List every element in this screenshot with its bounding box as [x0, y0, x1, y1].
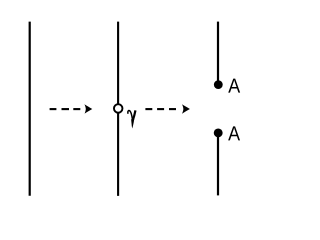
label A (bottom)	[228, 126, 240, 140]
wavefront line 2 (middle vertical line)	[117, 22, 119, 196]
wavefront line 1 (left vertical line)	[29, 22, 31, 196]
label γ (photon)	[128, 110, 136, 128]
dashed arrow 2 (head)	[182, 104, 190, 113]
dashed arrow 1 (shaft: dash 3)	[73, 108, 80, 110]
atom dot A (bottom)	[214, 128, 223, 137]
scattering vertex: open circle on middle line	[114, 104, 123, 113]
dashed arrow 1 (shaft: dash 2)	[62, 108, 70, 110]
dashed arrow 2 (shaft: dash 2)	[157, 108, 164, 110]
lower branch line (right bottom vertical)	[217, 135, 219, 195]
label A (top)	[228, 79, 240, 93]
dashed arrow 1 (head)	[84, 104, 92, 113]
upper branch line (right top vertical)	[217, 22, 219, 82]
dashed arrow 2 (shaft: dash 3)	[169, 108, 176, 110]
dashed arrow 1 (shaft: dash 1)	[50, 108, 57, 110]
atom dot A (top)	[214, 80, 223, 89]
dashed arrow 2 (shaft: dash 1)	[145, 108, 152, 110]
